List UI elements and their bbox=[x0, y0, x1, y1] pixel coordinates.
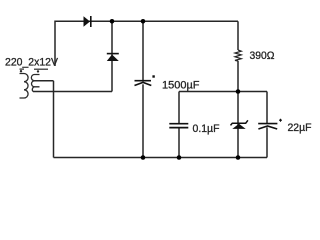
svg-text:0.1µF: 0.1µF bbox=[193, 123, 220, 135]
svg-text:22µF: 22µF bbox=[288, 122, 312, 134]
junction dot ground rail at C1 bbox=[141, 155, 146, 160]
capacitor C2 0.1uF bbox=[169, 124, 188, 128]
diode D1 (series, on top rail) bbox=[84, 16, 91, 27]
wire D2 branch vertical bbox=[111, 21, 113, 91]
junction dot ground rail at C2 bbox=[177, 155, 182, 160]
wire 22uF branch upper bbox=[266, 92, 268, 124]
transformer T1 220_2x12V primary coil bbox=[20, 74, 29, 99]
wire right vertical lower (resistor to bottom rail, through zener) bbox=[237, 61, 239, 158]
svg-text:1500µF: 1500µF bbox=[162, 80, 200, 92]
junction dot ground rail at zener bbox=[236, 155, 241, 160]
wire left vertical (center tap to ground rail) bbox=[53, 81, 55, 158]
wire 0.1uF branch lower bbox=[178, 128, 180, 158]
transformer T1 primary phase dot bbox=[20, 70, 22, 72]
wire top rail with left corner vertical bbox=[55, 21, 238, 66]
wire secondary center-tap lead bbox=[35, 80, 54, 82]
junction dot sub-circuit top rail at zener bbox=[236, 89, 241, 94]
transformer T1 secondary phase dot bbox=[37, 70, 39, 72]
wire sub-circuit top rail bbox=[179, 91, 267, 93]
capacitor C3 22uF (polarized) bbox=[258, 119, 282, 129]
svg-text:390Ω: 390Ω bbox=[250, 50, 275, 62]
diode D2 (vertical, pointing up) bbox=[107, 54, 119, 61]
svg-text:220_2x12V: 220_2x12V bbox=[5, 56, 59, 68]
wire 1500uF branch lower bbox=[142, 84, 144, 157]
capacitor C1 1500uF (polarized) bbox=[135, 75, 155, 85]
wire right vertical upper (top rail to resistor) bbox=[237, 21, 239, 50]
resistor R1 390ohm zigzag bbox=[235, 50, 241, 61]
wire bottom ground rail bbox=[54, 157, 268, 159]
transformer T1 secondary top terminal stub bbox=[34, 68, 48, 70]
transformer T1 primary top terminal stub bbox=[20, 68, 25, 70]
wire secondary bottom lead to D2 bbox=[33, 91, 112, 93]
wire 0.1uF branch upper bbox=[178, 92, 180, 124]
transformer T1 secondary coil bbox=[31, 75, 39, 92]
zener diode DZ bbox=[231, 120, 248, 129]
wire 1500uF branch upper bbox=[142, 21, 144, 80]
wire 22uF branch lower bbox=[266, 127, 268, 157]
junction dot top rail at D2 bbox=[110, 19, 115, 24]
junction dot top rail at C1 bbox=[141, 19, 146, 24]
